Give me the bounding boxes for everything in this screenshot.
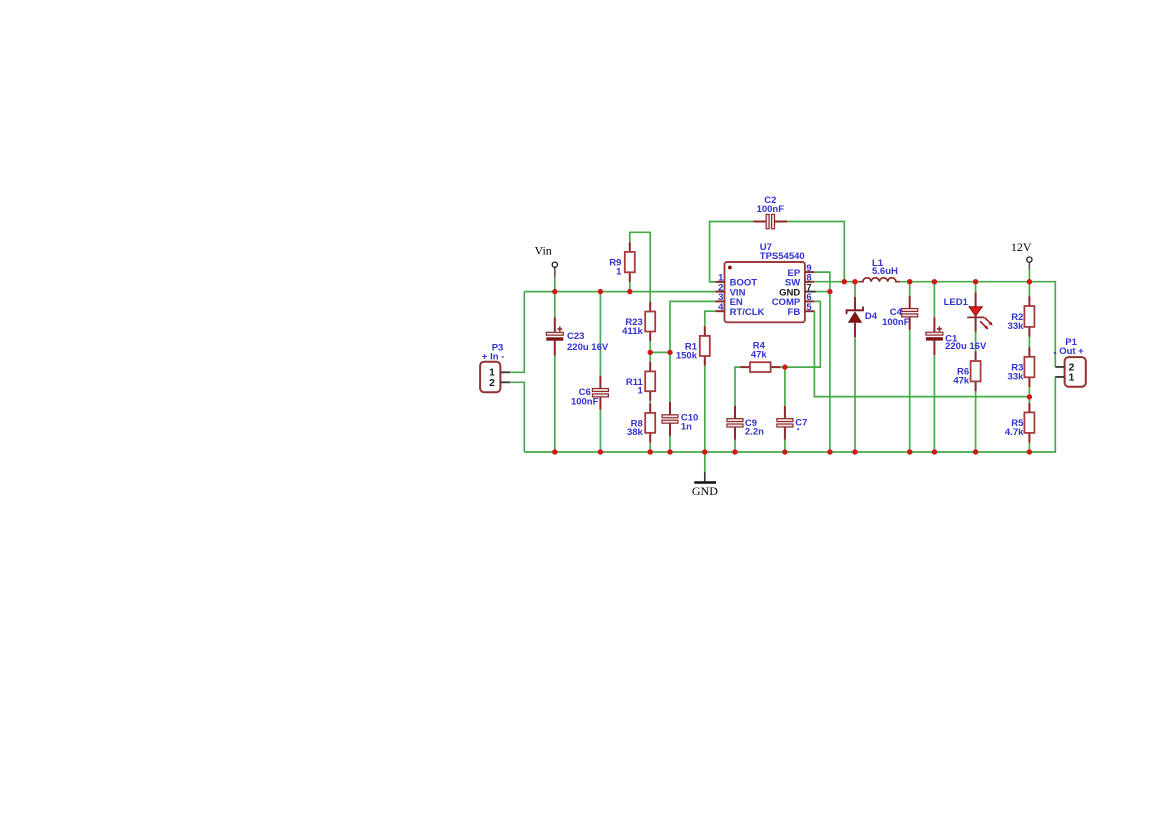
svg-text:47k: 47k: [953, 376, 970, 387]
junction ground rail / C4: [907, 449, 912, 454]
junction ground rail / D4: [852, 449, 857, 454]
capacitor C4: [882, 296, 918, 330]
svg-text:100nF: 100nF: [757, 204, 785, 215]
pin 2 VIN: [715, 282, 745, 298]
svg-text:4.7k: 4.7k: [1005, 427, 1024, 438]
node Vin flag: [535, 244, 558, 278]
junction Vin rail / C6: [598, 289, 603, 294]
svg-text:150k: 150k: [676, 350, 698, 361]
diode D4: [847, 297, 878, 337]
junction ground rail / C23: [552, 449, 557, 454]
resistor R23: [622, 302, 655, 341]
svg-text:4: 4: [718, 302, 724, 313]
wire BOOT to C2: [710, 222, 754, 282]
node 12V flag: [1011, 240, 1032, 270]
svg-text:47k: 47k: [751, 350, 768, 361]
junction 12V rail / C4: [907, 279, 912, 284]
resistor R1: [676, 326, 710, 366]
pin 9 EP: [788, 263, 814, 279]
wire C7 column: [784, 367, 786, 452]
junction ground rail / C9: [732, 449, 737, 454]
wire R9 bottom: [629, 282, 631, 292]
svg-text:GND: GND: [692, 484, 718, 498]
junction ground rail / C6: [598, 449, 603, 454]
junction node COMP / R4-C7: [782, 364, 787, 369]
junction 12V rail / C1: [932, 279, 937, 284]
resistor R5: [1005, 403, 1035, 443]
resistor R6: [953, 351, 980, 391]
wire C6 column: [599, 292, 601, 452]
pin 6 COMP: [772, 292, 814, 308]
wire R9 top loop to R23: [630, 232, 650, 301]
junction ground rail / C10: [667, 449, 672, 454]
wire P3 pin2 to ground rail: [510, 382, 524, 452]
svg-text:Out +: Out +: [1059, 346, 1084, 357]
capacitor C10: [662, 402, 698, 436]
wire C2 to SW: [787, 222, 844, 282]
pin 8 SW: [785, 273, 814, 289]
capacitor C6: [571, 376, 608, 410]
junction node FB / R3-R5: [1027, 394, 1032, 399]
wire R11 to R8: [649, 401, 651, 403]
wire FB node to R5: [1028, 397, 1030, 403]
junction 12V rail / LED1: [973, 279, 978, 284]
svg-text:+ In -: + In -: [482, 351, 504, 362]
pin 5 FB: [788, 302, 814, 318]
wire R1 bottom: [704, 366, 706, 452]
connector P3: [480, 342, 510, 392]
capacitor C1: [926, 317, 987, 355]
wire R5 bottom: [1028, 443, 1030, 452]
wire SW rail: [814, 281, 859, 283]
svg-text:1n: 1n: [681, 421, 692, 432]
wire C10 column: [669, 352, 671, 452]
wire D4 column: [854, 282, 856, 452]
wire C1 column: [933, 282, 935, 452]
svg-text:1: 1: [1069, 373, 1075, 384]
svg-text:411k: 411k: [622, 326, 643, 337]
pin 4 RT/CLK: [715, 302, 764, 318]
junction SW rail / D4: [852, 279, 857, 284]
svg-text:5: 5: [806, 302, 812, 313]
capacitor C23: [546, 318, 609, 356]
wire R2 to R3: [1028, 337, 1030, 347]
wire RT/CLK to R1: [705, 311, 716, 326]
connector P1: [1054, 337, 1086, 387]
junction ground rail / R1-GND: [702, 449, 707, 454]
junction GND pin / EP line: [827, 289, 832, 294]
resistor R9: [609, 242, 635, 282]
wire R3 to FB node: [1028, 387, 1030, 397]
svg-text:D4: D4: [865, 311, 878, 322]
wire GND pin link: [816, 291, 830, 293]
svg-text:C7: C7: [795, 418, 807, 429]
wire L1 to 12V rail and P1 pin2: [900, 282, 1055, 367]
wire C23 column: [554, 292, 556, 452]
wire Vin flag drop: [554, 278, 556, 292]
junction ground rail / C1: [932, 449, 937, 454]
wire C4 column: [909, 282, 911, 452]
junction node EN / R23-R11: [648, 350, 653, 355]
wire VIN rail: [524, 291, 715, 293]
svg-text:1: 1: [616, 266, 622, 277]
wire P3 pin1 to Vin rail: [510, 292, 524, 373]
svg-text:38k: 38k: [627, 427, 644, 438]
wire EP to ground: [814, 272, 830, 452]
wire R8 bottom: [649, 443, 651, 452]
junction node EN / C10: [667, 350, 672, 355]
wire 12V flag drop: [1028, 269, 1030, 281]
svg-text:2.2n: 2.2n: [745, 427, 764, 438]
svg-text:5.6uH: 5.6uH: [872, 266, 898, 277]
IC U7 TPS54540: [725, 242, 805, 322]
svg-text:33k: 33k: [1008, 321, 1025, 332]
svg-text:100nF: 100nF: [571, 397, 599, 408]
wire R2 top: [1028, 282, 1030, 297]
wire GND stem: [704, 452, 706, 472]
wire FB line: [814, 311, 1030, 396]
ground: [692, 472, 718, 498]
pin 7 GND: [779, 282, 816, 298]
capacitor C7: [777, 406, 808, 440]
resistor R3: [1008, 347, 1035, 387]
svg-text:Vin: Vin: [535, 244, 552, 258]
wire EN pin to divider: [670, 301, 715, 352]
junction ground rail / R5: [1027, 449, 1032, 454]
wire LED1 column: [975, 282, 977, 452]
junction ground rail / EP: [827, 449, 832, 454]
junction Vin rail / C23: [552, 289, 557, 294]
svg-text:100nF: 100nF: [882, 317, 910, 328]
pin 3 EN: [715, 292, 743, 308]
resistor R8: [627, 403, 655, 442]
LED LED1: [944, 292, 993, 332]
svg-text:220u 16V: 220u 16V: [945, 341, 987, 352]
capacitor C2: [753, 195, 787, 229]
svg-text:FB: FB: [788, 307, 801, 318]
junction SW rail / C2: [842, 279, 847, 284]
capacitor C9: [727, 406, 764, 440]
wire ground bottom rail: [524, 377, 1055, 452]
junction ground rail / C7: [782, 449, 787, 454]
junction ground rail / R8: [648, 449, 653, 454]
wire R4 left to C9: [735, 367, 740, 452]
svg-text:220u 16V: 220u 16V: [567, 342, 609, 353]
svg-text:12V: 12V: [1011, 240, 1032, 254]
svg-text:TPS54540: TPS54540: [760, 251, 805, 262]
resistor R11: [626, 362, 655, 401]
svg-text:33k: 33k: [1008, 371, 1025, 382]
svg-text:LED1: LED1: [944, 297, 969, 308]
resistor R2: [1008, 296, 1035, 336]
wire R23 to R11: [649, 341, 651, 362]
junction Vin rail / R9: [627, 289, 632, 294]
pin 1 BOOT: [715, 273, 757, 289]
svg-text:C23: C23: [567, 331, 584, 342]
svg-text:2: 2: [489, 378, 495, 389]
junction ground rail / R6: [973, 449, 978, 454]
wire node EN jumper: [650, 351, 670, 353]
svg-text:1: 1: [638, 386, 644, 397]
wire COMP to R4: [780, 301, 820, 367]
inductor L1: [859, 258, 900, 282]
junction 12V rail / R2: [1027, 279, 1032, 284]
svg-text:RT/CLK: RT/CLK: [730, 307, 765, 318]
resistor R4: [740, 341, 780, 372]
